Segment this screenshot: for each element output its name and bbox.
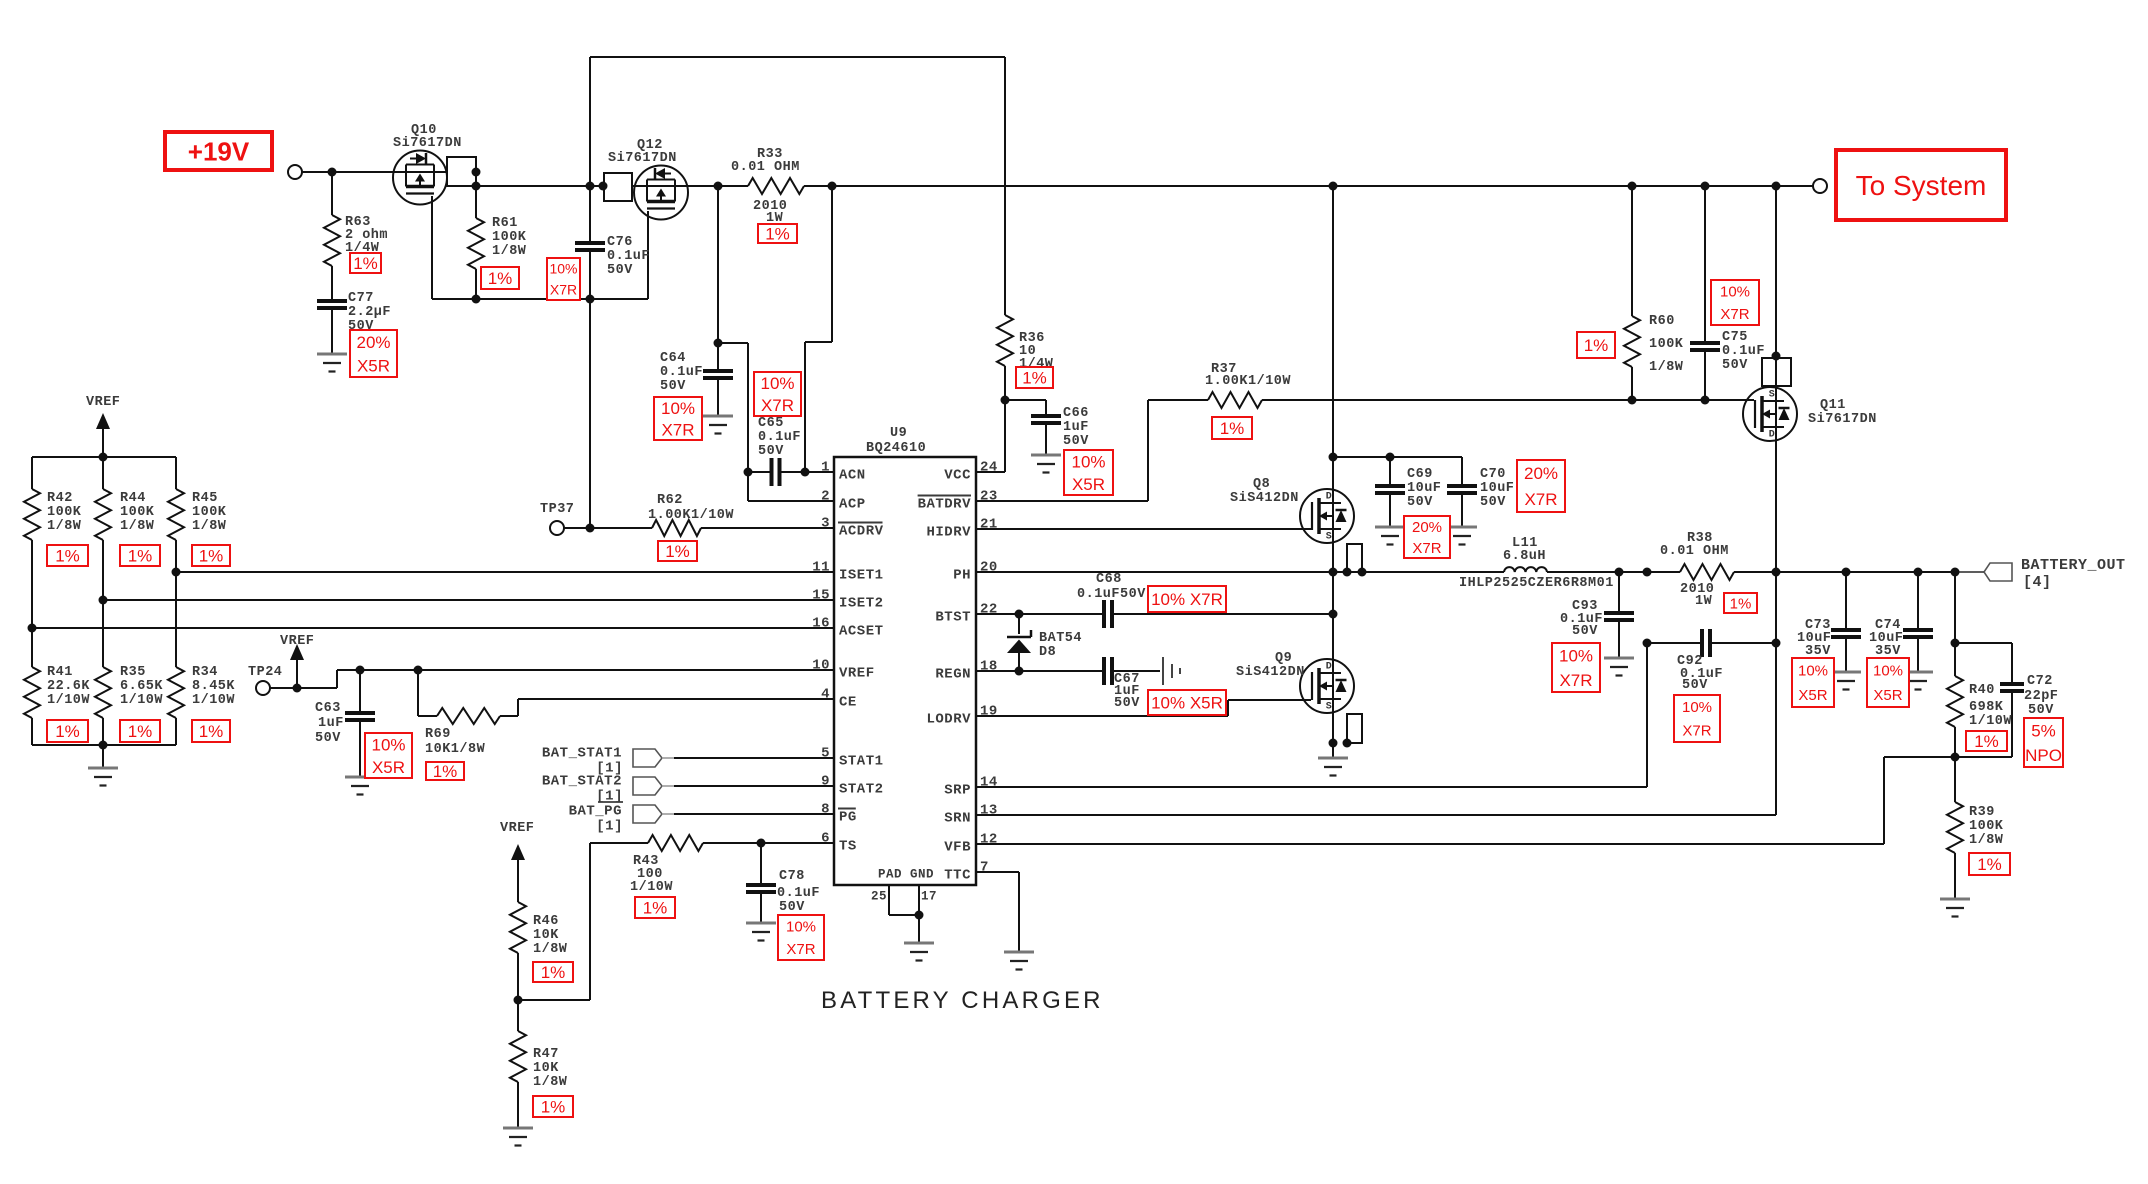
svg-text:VREF: VREF	[280, 634, 314, 649]
svg-text:X7R: X7R	[786, 941, 815, 958]
svg-text:X7R: X7R	[661, 420, 694, 439]
svg-text:10% X7R: 10% X7R	[1151, 590, 1223, 609]
svg-text:TP37: TP37	[540, 502, 574, 517]
svg-text:1/8W: 1/8W	[1649, 360, 1684, 375]
svg-text:D: D	[1326, 491, 1333, 502]
svg-text:10%: 10%	[661, 399, 695, 418]
svg-text:R39: R39	[1969, 805, 1995, 820]
svg-text:7: 7	[980, 860, 989, 876]
svg-text:50V: 50V	[660, 379, 686, 394]
svg-text:X5R: X5R	[372, 758, 405, 777]
svg-text:C78: C78	[779, 869, 805, 884]
svg-text:50V: 50V	[1682, 678, 1708, 693]
svg-text:1/10W: 1/10W	[47, 693, 90, 708]
svg-text:VREF: VREF	[500, 821, 534, 836]
svg-text:STAT1: STAT1	[839, 753, 884, 769]
svg-text:20: 20	[980, 560, 998, 576]
svg-text:1%: 1%	[541, 963, 566, 982]
svg-text:19: 19	[980, 704, 998, 720]
svg-text:X7R: X7R	[1720, 306, 1749, 323]
svg-text:C65: C65	[758, 416, 784, 431]
svg-text:HIDRV: HIDRV	[926, 524, 971, 540]
svg-text:10%: 10%	[1720, 284, 1750, 301]
svg-text:12: 12	[980, 832, 998, 848]
svg-text:X7R: X7R	[1524, 490, 1557, 509]
svg-text:C66: C66	[1063, 406, 1089, 421]
svg-text:100K: 100K	[1969, 819, 2004, 834]
svg-text:BATTERY CHARGER: BATTERY CHARGER	[821, 987, 1104, 1014]
svg-text:1%: 1%	[1022, 369, 1047, 388]
svg-text:14: 14	[980, 775, 998, 791]
svg-text:VREF: VREF	[839, 665, 875, 681]
svg-text:10uF: 10uF	[1407, 481, 1441, 496]
svg-text:1/8W: 1/8W	[47, 519, 82, 534]
svg-text:D8: D8	[1039, 645, 1056, 660]
svg-text:R41: R41	[47, 665, 73, 680]
svg-text:10uF: 10uF	[1480, 481, 1514, 496]
svg-text:IHLP2525CZER6R8M01: IHLP2525CZER6R8M01	[1459, 576, 1614, 591]
svg-text:+19V: +19V	[188, 136, 250, 166]
svg-text:R60: R60	[1649, 314, 1675, 329]
svg-text:1%: 1%	[199, 547, 224, 566]
svg-text:6.65K: 6.65K	[120, 679, 163, 694]
svg-text:BAT_STAT2: BAT_STAT2	[542, 773, 622, 789]
svg-text:X7R: X7R	[550, 282, 577, 298]
svg-text:1%: 1%	[55, 722, 80, 741]
svg-text:ACSET: ACSET	[839, 623, 884, 639]
svg-text:BAT_PG: BAT_PG	[569, 803, 622, 819]
svg-text:1%: 1%	[1974, 732, 1999, 751]
svg-text:C63: C63	[315, 701, 341, 716]
svg-text:1.00K1/10W: 1.00K1/10W	[1205, 374, 1291, 389]
svg-text:1%: 1%	[128, 547, 153, 566]
svg-text:100K: 100K	[120, 505, 155, 520]
svg-text:X5R: X5R	[1873, 687, 1902, 704]
svg-text:3: 3	[821, 516, 830, 532]
svg-text:10%: 10%	[1798, 663, 1828, 680]
svg-text:10% X5R: 10% X5R	[1151, 694, 1223, 713]
svg-text:S: S	[1326, 531, 1333, 542]
svg-text:NPO: NPO	[2025, 746, 2062, 765]
svg-text:0.1uF: 0.1uF	[777, 886, 820, 901]
svg-text:U9: U9	[890, 426, 907, 441]
svg-text:9: 9	[821, 774, 830, 790]
svg-text:100K: 100K	[1649, 337, 1684, 352]
svg-text:100K: 100K	[492, 230, 527, 245]
svg-text:C72: C72	[2027, 674, 2053, 689]
svg-text:1/10W: 1/10W	[630, 880, 673, 895]
svg-text:50V: 50V	[315, 731, 341, 746]
svg-text:1%: 1%	[665, 542, 690, 561]
svg-text:ACN: ACN	[839, 467, 866, 483]
svg-text:2.2µF: 2.2µF	[348, 305, 391, 320]
svg-text:R46: R46	[533, 914, 559, 929]
svg-text:D: D	[1326, 661, 1333, 672]
svg-text:35V: 35V	[1805, 644, 1831, 659]
svg-text:R35: R35	[120, 665, 146, 680]
svg-text:10: 10	[812, 658, 830, 674]
svg-text:LODRV: LODRV	[926, 711, 971, 727]
svg-text:STAT2: STAT2	[839, 781, 884, 797]
svg-text:PG: PG	[839, 809, 857, 825]
svg-text:0.1uF: 0.1uF	[607, 249, 650, 264]
svg-text:X7R: X7R	[761, 396, 794, 415]
svg-text:10%: 10%	[1873, 663, 1903, 680]
svg-text:C69: C69	[1407, 467, 1433, 482]
svg-text:1/8W: 1/8W	[492, 244, 527, 259]
svg-text:0.1uF: 0.1uF	[758, 430, 801, 445]
svg-text:6.8uH: 6.8uH	[1503, 549, 1546, 564]
svg-text:1%: 1%	[765, 225, 790, 244]
svg-text:1%: 1%	[488, 269, 513, 288]
svg-text:C76: C76	[607, 235, 633, 250]
svg-text:50V: 50V	[1722, 358, 1748, 373]
svg-text:698K: 698K	[1969, 700, 2004, 715]
svg-text:4: 4	[821, 687, 830, 703]
svg-text:1%: 1%	[1977, 855, 2002, 874]
svg-text:1%: 1%	[353, 254, 378, 273]
svg-text:1%: 1%	[55, 547, 80, 566]
svg-text:[1]: [1]	[596, 818, 623, 834]
svg-text:BQ24610: BQ24610	[866, 441, 926, 456]
svg-text:10%: 10%	[786, 919, 816, 936]
svg-text:1/10W: 1/10W	[120, 693, 163, 708]
svg-text:0.01 OHM: 0.01 OHM	[731, 160, 800, 175]
svg-text:10%: 10%	[1682, 699, 1712, 716]
svg-text:1/10W: 1/10W	[1969, 714, 2012, 729]
svg-text:PAD GND: PAD GND	[878, 867, 934, 881]
svg-text:R34: R34	[192, 665, 218, 680]
svg-text:R47: R47	[533, 1047, 559, 1062]
svg-text:0.1uF50V: 0.1uF50V	[1077, 587, 1146, 602]
svg-text:X7R: X7R	[1412, 540, 1441, 557]
svg-text:Q8: Q8	[1253, 477, 1270, 492]
svg-text:1/8W: 1/8W	[1969, 833, 2004, 848]
svg-text:1%: 1%	[1584, 336, 1609, 355]
svg-text:1/8W: 1/8W	[533, 942, 568, 957]
svg-text:11: 11	[812, 560, 830, 576]
svg-text:50V: 50V	[758, 444, 784, 459]
svg-text:R42: R42	[47, 491, 73, 506]
svg-text:25: 25	[871, 889, 887, 903]
svg-text:To System: To System	[1856, 170, 1987, 201]
svg-text:SiS412DN: SiS412DN	[1230, 491, 1299, 506]
svg-text:Q11: Q11	[1820, 398, 1846, 413]
svg-text:TP24: TP24	[248, 665, 282, 680]
svg-text:X5R: X5R	[357, 356, 390, 375]
svg-text:ISET1: ISET1	[839, 567, 884, 583]
svg-text:50V: 50V	[1114, 696, 1140, 711]
svg-text:BAT_STAT1: BAT_STAT1	[542, 745, 622, 761]
svg-text:24: 24	[980, 460, 998, 476]
svg-text:2: 2	[821, 489, 830, 505]
svg-text:17: 17	[921, 889, 937, 903]
svg-text:S: S	[1326, 701, 1333, 712]
svg-text:ACP: ACP	[839, 496, 866, 512]
svg-text:1/8W: 1/8W	[533, 1075, 568, 1090]
svg-text:PH: PH	[953, 567, 971, 583]
svg-text:10K: 10K	[533, 928, 559, 943]
svg-text:BATDRV: BATDRV	[918, 496, 972, 512]
svg-text:SRN: SRN	[944, 810, 971, 826]
svg-text:15: 15	[812, 588, 830, 604]
svg-text:C77: C77	[348, 291, 374, 306]
svg-text:BATTERY_OUT: BATTERY_OUT	[2021, 557, 2126, 574]
svg-text:10K1/8W: 10K1/8W	[425, 742, 486, 757]
svg-text:1%: 1%	[1730, 595, 1752, 612]
svg-text:0.1uF: 0.1uF	[660, 365, 703, 380]
svg-text:13: 13	[980, 803, 998, 819]
svg-text:REGN: REGN	[935, 666, 971, 682]
svg-text:35V: 35V	[1875, 644, 1901, 659]
svg-text:1.00K1/10W: 1.00K1/10W	[648, 508, 734, 523]
svg-text:1/8W: 1/8W	[192, 519, 227, 534]
svg-text:50V: 50V	[1063, 434, 1089, 449]
svg-text:C75: C75	[1722, 330, 1748, 345]
svg-text:50V: 50V	[1407, 495, 1433, 510]
svg-text:SRP: SRP	[944, 782, 971, 798]
svg-text:1%: 1%	[433, 762, 458, 781]
svg-text:1%: 1%	[128, 722, 153, 741]
svg-text:5: 5	[821, 746, 830, 762]
svg-text:50V: 50V	[2028, 703, 2054, 718]
svg-text:50V: 50V	[1480, 495, 1506, 510]
svg-text:50V: 50V	[1572, 624, 1598, 639]
svg-text:1: 1	[821, 460, 830, 476]
svg-text:X5R: X5R	[1798, 687, 1827, 704]
svg-text:X7R: X7R	[1559, 671, 1592, 690]
svg-text:22.6K: 22.6K	[47, 679, 90, 694]
svg-text:10K: 10K	[533, 1061, 559, 1076]
svg-text:X7R: X7R	[1682, 723, 1711, 740]
svg-text:ISET2: ISET2	[839, 595, 884, 611]
svg-text:22: 22	[980, 602, 998, 618]
svg-text:1%: 1%	[199, 722, 224, 741]
svg-text:100K: 100K	[47, 505, 82, 520]
svg-text:16: 16	[812, 616, 830, 632]
svg-text:1/8W: 1/8W	[120, 519, 155, 534]
svg-text:1%: 1%	[643, 899, 668, 918]
svg-text:VREF: VREF	[86, 395, 120, 410]
svg-text:1uF: 1uF	[1063, 420, 1089, 435]
svg-text:20%: 20%	[356, 333, 390, 352]
svg-text:R69: R69	[425, 727, 451, 742]
svg-text:BAT54: BAT54	[1039, 631, 1082, 646]
svg-text:R62: R62	[657, 493, 683, 508]
svg-text:5%: 5%	[2031, 721, 2056, 740]
svg-text:R44: R44	[120, 491, 146, 506]
svg-text:10%: 10%	[371, 735, 405, 754]
svg-text:TTC: TTC	[944, 867, 971, 883]
svg-text:VCC: VCC	[944, 467, 971, 483]
svg-text:Si7617DN: Si7617DN	[393, 136, 462, 151]
svg-text:1W: 1W	[1695, 594, 1713, 609]
svg-text:SiS412DN: SiS412DN	[1236, 665, 1305, 680]
svg-text:Si7617DN: Si7617DN	[1808, 412, 1877, 427]
svg-text:TS: TS	[839, 838, 857, 854]
svg-text:1%: 1%	[541, 1098, 566, 1117]
svg-text:10%: 10%	[760, 374, 794, 393]
svg-text:R45: R45	[192, 491, 218, 506]
svg-text:CE: CE	[839, 694, 857, 710]
svg-text:21: 21	[980, 517, 998, 533]
svg-text:22pF: 22pF	[2024, 689, 2058, 704]
svg-text:20%: 20%	[1524, 464, 1558, 483]
svg-text:R61: R61	[492, 216, 518, 231]
svg-text:R40: R40	[1969, 683, 1995, 698]
svg-text:C64: C64	[660, 351, 686, 366]
svg-text:Q9: Q9	[1275, 651, 1292, 666]
svg-text:8.45K: 8.45K	[192, 679, 235, 694]
svg-text:18: 18	[980, 659, 998, 675]
svg-text:BTST: BTST	[935, 609, 971, 625]
svg-text:C68: C68	[1096, 572, 1122, 587]
svg-text:Si7617DN: Si7617DN	[608, 151, 677, 166]
svg-text:100K: 100K	[192, 505, 227, 520]
svg-text:10%: 10%	[1559, 646, 1593, 665]
svg-text:X5R: X5R	[1072, 475, 1105, 494]
svg-text:S: S	[1769, 389, 1776, 400]
svg-text:20%: 20%	[1412, 519, 1442, 536]
svg-text:10%: 10%	[1071, 452, 1105, 471]
svg-text:0.1uF: 0.1uF	[1722, 344, 1765, 359]
svg-text:50V: 50V	[607, 263, 633, 278]
svg-text:1uF: 1uF	[318, 716, 344, 731]
svg-text:23: 23	[980, 489, 998, 505]
svg-text:D: D	[1769, 429, 1776, 440]
svg-text:50V: 50V	[779, 900, 805, 915]
svg-text:8: 8	[821, 802, 830, 818]
svg-text:1/10W: 1/10W	[192, 693, 235, 708]
svg-text:ACDRV: ACDRV	[839, 523, 884, 539]
svg-text:0.01 OHM: 0.01 OHM	[1660, 544, 1729, 559]
svg-text:6: 6	[821, 831, 830, 847]
svg-text:VFB: VFB	[944, 839, 971, 855]
svg-text:C70: C70	[1480, 467, 1506, 482]
svg-text:[4]: [4]	[2023, 574, 2052, 591]
svg-text:1%: 1%	[1220, 419, 1245, 438]
svg-text:10%: 10%	[549, 261, 577, 277]
